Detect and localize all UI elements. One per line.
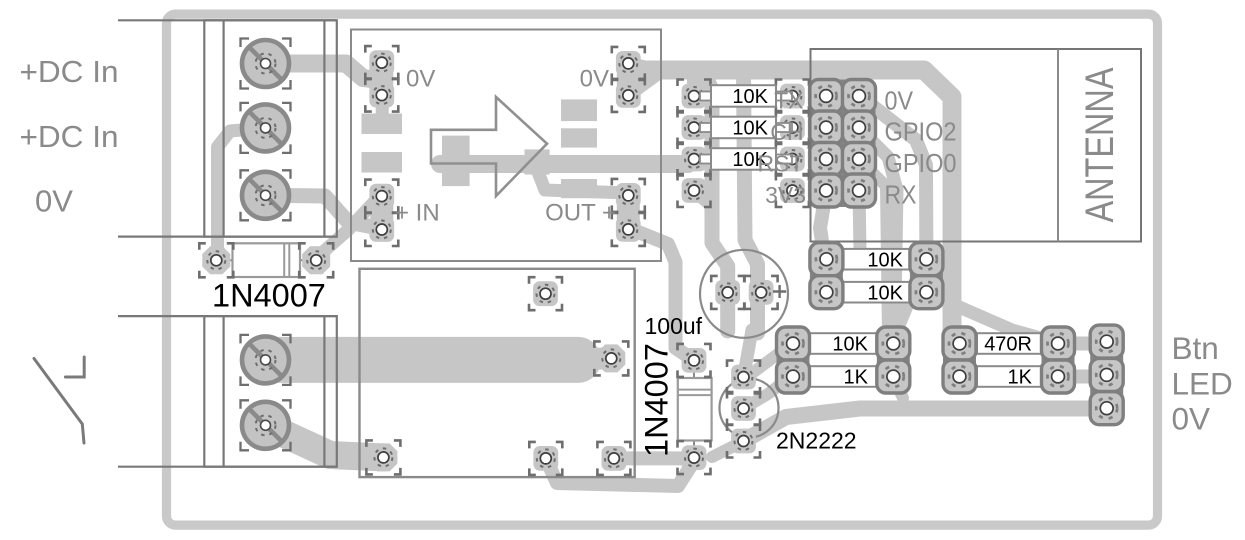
svg-text:100uf: 100uf [645,313,703,339]
relay K1 coil pad A [529,442,562,475]
module U1 pad OUT upper [612,179,645,212]
transistor Q1 base pad [727,392,760,425]
wire/trace module OUT lower pad to diode D3 top pad [628,228,692,359]
wire/trace relay coil pad to diode D3 bottom pad (dip) [546,458,694,486]
svg-text:10K: 10K [732,118,768,140]
svg-text:10K: 10K [867,249,903,271]
header J5 block [1090,325,1123,425]
svg-text:10K: 10K [867,282,903,304]
diode D1 left pad [199,243,233,277]
transistor Q1 outline circle [720,379,779,438]
wire/trace ESP 0V pad down to 10K right pad [861,97,926,256]
header J5 0V pad [1090,392,1123,425]
wire/trace capacitor to transistor collector [744,330,753,377]
capacitor C1 plus mark [773,285,786,298]
capacitor C1 negative pad [711,276,744,309]
wire/trace 1K right pad to ground bus [893,377,903,398]
wire/trace 10K right pad to 470R right area [927,293,1055,342]
ESP module U2 antenna divider [1057,49,1059,242]
header pads left of R6/R7 [777,327,810,393]
wire/trace screw1 to module 0V pad [266,64,379,81]
resistor R4 10K [832,249,922,272]
terminal J2 screw 1 [241,335,291,385]
svg-text:ANTENNA: ANTENNA [1078,67,1122,222]
wire/trace 10K right pad to mid resistor right pad [893,260,926,342]
transistor Q1 emitter pad [727,425,760,458]
terminal J1 screw 3 [241,170,291,220]
relay K1 coil pad B [597,442,630,475]
header J3 pin1 [678,80,711,113]
wire/trace header pin1 stub to top bus [687,80,701,96]
header J3 pin2 [678,111,711,144]
diode D3 vertical body [678,360,712,457]
wire/trace 470R right pad to header Btn pad [1058,337,1102,351]
svg-text:1N4007: 1N4007 [212,278,326,314]
board outline [167,14,1158,525]
svg-text:+DC In: +DC In [20,119,119,154]
svg-text:GPIO2: GPIO2 [885,117,957,147]
ESP-01 pad CH_PD [776,111,809,144]
svg-text:Btn: Btn [1172,330,1219,366]
wire/trace 1K left pad to transistor base [746,377,790,407]
resistor R9 1K [965,366,1053,389]
relay K1 common pad [366,440,400,474]
resistor R3 10K [700,148,792,171]
wire/trace ESP RX column down [820,192,826,254]
resistor R5 10K [832,282,922,305]
module U1 pad 0V upper-left [365,46,398,79]
capacitor C1 positive pad [745,276,778,309]
relay K1 coil pad top [529,277,562,310]
ESP-01 pad RST [776,143,809,176]
module U1 pad 0V right lower [612,79,645,112]
header pads right of R8/R9 [1042,327,1075,393]
wire +DC In top [118,19,337,21]
terminal J2 screw 2 [241,400,291,450]
wire/trace ESP GPIO0 pad to 10K pull resistor [860,161,893,344]
module U1 pad OUT lower [612,213,645,246]
wire/trace ESP RX pad down [859,192,860,250]
resistor R8 470R [965,333,1053,356]
terminal block J2 outline [204,316,336,467]
resistor R2 10K [700,117,792,140]
ESP module U2 outline [811,49,1142,242]
wire/trace module OUT upper pad link [538,172,628,193]
svg-text:0V: 0V [885,86,914,116]
ESP-01 pad 3V3 [776,174,809,207]
header J4 2x4 socket pads [810,80,876,208]
wire/trace 1K right pad to header LED pad [1058,370,1102,384]
transistor Q1 collector pad [727,361,760,394]
module U1 pad +IN upper [365,180,398,213]
svg-text:3V3: 3V3 [765,182,806,208]
wire/trace ground bus to Btn header [744,409,1101,442]
wire/trace top bus down to capacitor left pad [705,74,728,331]
svg-text:LED: LED [1172,365,1233,401]
svg-text:1K: 1K [844,367,869,389]
terminal J1 screw 2 [241,103,291,153]
module U1 pad 0V lower-left [365,79,398,112]
power module U1 outline [351,30,661,262]
switch S1 symbol [34,357,84,443]
ESP-01 pad TX [776,80,809,113]
wire/trace bottom screw2 to relay common pad [266,425,384,457]
wire/trace relay coil pad B to diode D3 bottom pad [614,451,692,465]
resistor R6 10K [798,333,888,356]
wire/trace module pad pair connectors [370,63,393,96]
header J5 LED pad [1090,358,1123,391]
wire/trace screw3 to module +IN pad [266,195,377,227]
svg-text:1K: 1K [1008,367,1033,389]
svg-text:0V: 0V [406,66,435,93]
diode D3 top pad [678,344,711,377]
wire/trace 10K left pad to transistor base area [751,345,790,374]
svg-text:TX: TX [774,88,803,114]
wire/trace module 0V pads to main V+ top bus [628,63,655,70]
header pads right of R4/R5 [910,243,943,309]
header pads left of R4/R5 [810,243,843,309]
wire switch top [118,315,337,317]
diode D1 body [216,243,316,277]
diode D1 right pad [299,243,333,277]
wire/trace bottom screw1 through relay to relay NO pad [266,337,579,383]
capacitor C1 outline circle [700,250,788,338]
resistor R7 1K [798,366,888,389]
header J3 pin4 [678,174,711,207]
svg-text:10K: 10K [732,86,768,108]
svg-text:RX: RX [885,180,917,210]
svg-text:RST: RST [758,151,804,177]
wire/trace transistor emitter to diode D3 bottom pad [712,442,742,457]
relay K1 NO pad [594,341,628,375]
wire 0V [118,236,337,238]
svg-text:470R: 470R [984,334,1032,356]
wire/trace diode D1 right pad to module +IN upper pad [316,199,377,258]
header pads right of R6/R7 [877,327,910,393]
svg-text:10K: 10K [832,334,868,356]
header J3 pin3 [678,143,711,176]
terminal J1 screw 1 [241,39,291,89]
svg-text:0V: 0V [35,184,73,219]
wire/trace screw2 to diode D1 left pad [218,128,266,258]
wire/trace ESP GPIO2 pad to 10K pull resistor [860,129,897,340]
svg-text:GPIO0: GPIO0 [885,148,957,178]
svg-text:+DC In: +DC In [20,54,119,89]
module U1 pad 0V right upper [612,47,645,80]
header pads left of R8/R9 [943,327,976,393]
svg-text:1N4007: 1N4007 [639,343,675,457]
svg-text:OUT +: OUT + [545,199,616,226]
svg-text:CH: CH [770,119,803,145]
wire/trace main top bus to 470R/1K left pads [632,70,958,343]
module internal copper pours [362,95,598,198]
wire/trace header pin4 to 3V3 rail [695,192,711,206]
module U1 pad +IN lower [365,213,398,246]
resistor R1 10K [700,85,792,108]
svg-text:+ IN: + IN [395,200,440,227]
diode D3 bottom pad [678,441,711,474]
wire/trace module internal OUT bus to header pin GPIO bus [440,155,688,173]
terminal block J1 outline [204,20,336,236]
svg-text:0V: 0V [580,66,609,93]
svg-text:0V: 0V [1172,400,1211,436]
wire switch bottom [118,466,337,468]
power module U1 arrow symbol [431,97,547,196]
relay K1 outline [360,269,635,477]
svg-text:2N2222: 2N2222 [776,428,857,454]
header J5 Btn pad [1090,325,1123,358]
wire/trace top bus down to capacitor right pad [744,73,758,333]
